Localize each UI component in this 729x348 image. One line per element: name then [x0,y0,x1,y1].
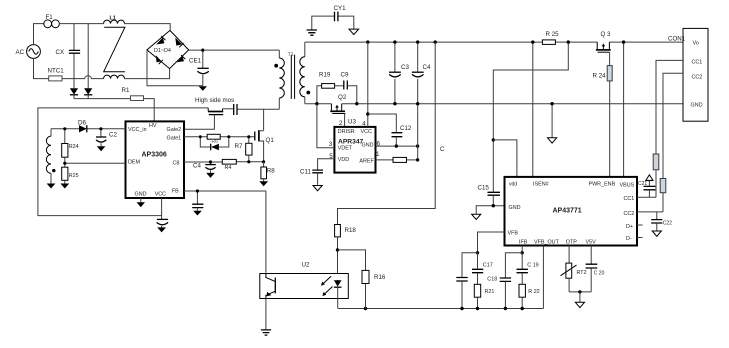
svg-text:U2: U2 [302,261,310,268]
svg-text:D-: D- [626,236,632,242]
capacitor C2 [96,129,117,146]
svg-text:D+: D+ [626,224,633,230]
wire CC1 down [655,170,657,198]
svg-text:Vo: Vo [693,41,699,47]
svg-text:C4: C4 [193,163,201,170]
wire CC2 pin [637,211,663,213]
capacitor CE1 [189,50,209,86]
wire VBUS pin drop [623,42,625,177]
wire AP43771 GND pin [476,206,504,215]
capacitor FB filter [192,191,203,216]
capacitor C11 [300,159,334,186]
ground R8 [259,181,268,186]
resistor R6 [207,134,220,145]
node C2 tap [99,127,102,130]
wire net C riser to R18 [338,42,436,224]
svg-text:C15: C15 [478,185,490,192]
svg-text:AC: AC [16,49,25,56]
svg-text:AREF: AREF [359,158,374,164]
svg-text:4: 4 [362,120,366,127]
svg-text:T1: T1 [288,52,294,58]
svg-text:R1: R1 [122,87,130,94]
wire D- stub [637,237,643,239]
svg-text:D6: D6 [78,120,86,127]
wire choke top to bridge [125,24,171,31]
transistor Q1 [255,130,275,162]
svg-text:C2: C2 [109,132,117,139]
svg-text:HV: HV [149,123,157,129]
ground R25 [60,184,69,189]
svg-text:ISEN#: ISEN# [533,182,549,188]
svg-text:C: C [440,146,445,153]
node R6 right [227,135,230,138]
thermistor NTC1 [48,68,65,81]
wire IFB pin [521,246,523,253]
resistor AREF [376,157,418,162]
capacitor C20 [586,246,605,292]
startup diode D3 (right) [84,24,92,99]
svg-text:F1: F1 [46,14,54,21]
svg-text:GND: GND [362,143,374,149]
thermistor RT2 [561,246,587,292]
transistor Q2 [330,94,347,127]
node R7 top [247,135,250,138]
wire C8 pin row [184,161,264,163]
svg-text:2: 2 [339,120,343,127]
wire GND pin6 [376,145,418,147]
svg-text:GND: GND [509,205,521,211]
resistor R1 [122,87,144,101]
wire CC1 from CON1 [656,60,683,154]
ground open triangle (CY1 right) [349,29,359,34]
node VCC/C12 tee [366,112,369,115]
svg-text:FB: FB [172,189,179,195]
IC AP43771 [505,177,638,246]
svg-text:R21: R21 [485,289,495,295]
svg-text:DRISR: DRISR [338,129,355,135]
node vdd branch [492,138,495,141]
node T1 primary polarity dot [274,64,278,68]
wire CC2 from CON1 [663,73,683,178]
svg-text:CC1: CC1 [692,60,703,66]
svg-text:C4: C4 [423,64,431,71]
capacitor C4 (primary) [193,162,216,173]
node VBUS tap [622,40,625,43]
ground C4 [206,173,215,178]
wire startup node to R1 [74,98,131,100]
node C12 bottom [395,144,398,147]
ground open triangle RT2 [575,292,584,308]
svg-text:RT2: RT2 [577,270,587,276]
transistor Q3 [596,31,611,66]
resistor R16 [338,250,386,309]
svg-text:Gate2: Gate2 [167,127,182,133]
ground open triangle AP43771 [472,214,481,219]
wire VCC_in pin [87,128,125,130]
capacitor C17 [472,253,493,284]
svg-text:3: 3 [329,141,333,148]
node Q1 source [262,160,265,163]
wire PWR_ENB drop [609,81,611,177]
wire RT2/C20 common [569,291,591,293]
svg-text:C8: C8 [173,160,180,166]
ground AP3306 GND pin [137,198,145,207]
capacitor C16 (left) [456,253,477,309]
node AREF end [416,158,419,161]
wire choke bottom to bridge [125,68,170,78]
svg-text:U3: U3 [348,119,356,126]
svg-text:C11: C11 [300,169,311,176]
svg-text:R7: R7 [235,143,243,150]
capacitor VCC pin [157,198,169,232]
svg-text:C21: C21 [638,181,647,187]
svg-text:CC1: CC1 [624,196,635,202]
wire DEM pin [65,162,126,164]
svg-text:CC2: CC2 [692,75,703,81]
svg-text:Gate1: Gate1 [167,136,182,142]
svg-text:L1: L1 [110,16,117,22]
svg-text:DEM: DEM [128,160,140,166]
svg-text:R24: R24 [69,144,79,150]
svg-text:R18: R18 [345,227,357,234]
wire FB pin [184,191,266,273]
ground earth U2 [261,330,271,335]
node rail dots gnd [393,102,396,105]
capacitor C22 [651,212,672,231]
svg-text:C18: C18 [487,276,497,282]
svg-text:GND: GND [691,103,703,109]
resistor R18 [335,225,357,281]
resistor R24 (aux divider) [62,129,79,157]
svg-text:NTC1: NTC1 [48,68,65,75]
svg-text:R8: R8 [267,167,275,174]
resistor CC2 series [660,179,666,193]
svg-text:High side mos: High side mos [195,97,234,104]
diode parallel to R6 [200,137,229,151]
node aux polarity dot [52,169,55,172]
wire R24 to R25 [64,157,66,167]
svg-text:CY1: CY1 [334,5,347,12]
svg-text:R19: R19 [319,72,331,79]
svg-text:AP43771: AP43771 [553,208,582,215]
resistor R25 (aux divider) [62,167,79,183]
svg-text:VCC: VCC [361,129,372,135]
svg-text:CON1: CON1 [668,36,686,43]
svg-text:IFB: IFB [519,240,528,246]
IC AP3306 [126,121,185,198]
node pin6 to gnd riser [416,144,419,147]
wire Gate1 pin [184,136,255,138]
IC U3 APR347 [329,119,381,173]
node C15 bottom [492,204,495,207]
svg-text:VFB: VFB [508,231,519,237]
capacitor C3 [389,42,409,104]
svg-text:VCC: VCC [155,192,166,198]
resistor R4 [222,159,236,170]
node VFB branch [476,251,479,254]
resistor R8 [261,162,275,181]
node rail dots top [366,40,369,43]
node R24 tap [63,127,66,130]
AC source [16,45,41,59]
node R6 left [199,135,202,138]
diode D6 [51,120,87,133]
wire VFB_OUT pin [542,246,544,309]
wire mos to snubber cap [223,108,234,110]
wire feedback bottom rail [338,308,543,310]
svg-text:VFB_OUT: VFB_OUT [534,240,560,246]
svg-text:Q 3: Q 3 [601,31,612,38]
svg-text:C3: C3 [401,64,409,71]
wire CC2 down [662,193,664,212]
capacitor CX [56,24,81,79]
ground earth (CY1 left) [307,30,317,35]
wire vdd supply riser [493,42,568,192]
capacitor C15 [478,185,501,206]
svg-text:C12: C12 [400,125,412,132]
ground stub on rail [548,104,557,143]
wire top line to choke [59,23,103,25]
svg-text:OTP: OTP [566,240,577,246]
wire VBUS rail [305,41,683,43]
wire AC top lead [34,24,44,45]
resistor R24 (Q3 gate) [593,66,613,81]
capacitor (high side, unlabeled) [234,104,280,115]
svg-text:CC2: CC2 [624,211,635,217]
svg-text:R6: R6 [212,139,219,145]
wire gnd riser (C4 leg continues) [417,104,419,160]
svg-text:C 20: C 20 [594,271,605,277]
node RT2 gnd [578,290,581,293]
resistor R25 (shunt) [542,31,559,45]
resistor R22 [519,284,540,308]
node CE1 tap [201,49,204,52]
node R7 bottom [247,160,250,163]
svg-text:C 19: C 19 [527,263,538,269]
svg-text:1: 1 [376,151,380,158]
bridge rectifier D1~D4 [147,30,189,68]
capacitor C9 [341,72,357,104]
connector CON1 [668,28,708,121]
wire bridge - output [147,50,203,86]
node drain tap [315,102,318,105]
transformer T1 [279,42,305,109]
wire R1 to HV pin [144,99,155,122]
node C4 tap [209,160,212,163]
svg-text:VDD: VDD [338,157,349,163]
svg-text:PWR_ENB: PWR_ENB [589,182,616,188]
svg-text:CX: CX [56,49,65,56]
capacitor C4 (secondary) [412,42,431,104]
svg-text:R 22: R 22 [528,289,539,295]
resistor R7 [235,137,253,162]
node R18 bottom [336,248,339,251]
svg-text:C17: C17 [483,263,493,269]
wire VFB pin [478,232,505,253]
node bottom rail dots [364,307,367,310]
capacitor C21 with arrow [638,175,655,198]
svg-text:Q2: Q2 [338,94,347,101]
fuse F1 [44,14,60,28]
wire high-side loop left [38,108,208,216]
common mode choke L1 [104,16,125,79]
svg-text:R25: R25 [69,173,79,179]
svg-text:AP3306: AP3306 [142,152,167,159]
capacitor C18 [487,253,522,309]
svg-text:D1~D4: D1~D4 [154,48,171,54]
ground aux winding [47,184,56,189]
svg-text:VCC_in: VCC_in [128,127,147,133]
node C9 to gnd [355,102,358,105]
wire VCC pin4 riser [367,42,369,127]
startup diode D2 (left) [70,79,78,99]
wire D+ stub [637,224,643,226]
transistor high side mos [184,97,234,129]
capacitor C12 [368,114,412,146]
wire bottom line to choke [62,76,104,79]
svg-text:VBUS: VBUS [620,182,635,188]
svg-text:APR347: APR347 [338,138,364,145]
svg-text:GND: GND [135,192,147,198]
node FB cap tap [196,189,199,192]
node gnd stub [550,102,553,105]
wire U2 emitter to ground [265,299,267,330]
svg-text:VDET: VDET [338,146,353,152]
node T1 secondary polarity dot [306,91,310,95]
wire bridge + output to transformer [189,49,280,51]
capacitor CY1 [312,5,354,30]
svg-text:R 25: R 25 [546,31,560,38]
wire VDET pin3 [317,104,335,148]
svg-text:vdd: vdd [509,182,517,188]
node ISEN tap [531,40,534,43]
wire ISEN# riser [532,42,534,177]
resistor R21 [474,284,494,308]
svg-text:CE1: CE1 [189,57,202,64]
wire CC1 pin [637,196,656,198]
ground (primary, bridge negative) [199,86,207,91]
svg-text:Q1: Q1 [266,137,275,144]
optocoupler U2 [260,261,349,308]
svg-text:V5V: V5V [586,240,597,246]
node DEM tap [63,162,66,165]
node IFB branch [521,251,524,254]
wire AC bottom lead [34,58,49,78]
aux winding [46,129,51,184]
resistor CC1 series [653,154,659,170]
svg-text:R 24: R 24 [593,73,607,80]
svg-text:R4: R4 [225,165,232,171]
svg-text:R16: R16 [374,274,386,281]
svg-text:C9: C9 [341,72,349,79]
node shunt right [567,40,570,43]
ground C2 [97,146,106,151]
wire GND rail (secondary) [305,103,683,105]
svg-text:C22: C22 [663,221,672,227]
wire Q1 drain riser [263,109,265,130]
wire vdd pin drop [493,140,517,177]
capacitor C19 [517,253,539,284]
ground open triangle C11 [313,186,322,191]
ground open triangle C22 [652,231,661,236]
resistor R19 [317,72,344,104]
